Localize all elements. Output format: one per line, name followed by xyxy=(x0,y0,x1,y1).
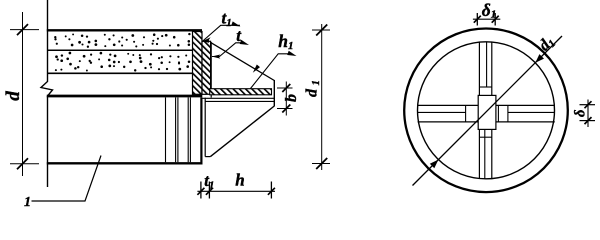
delta1 dim line xyxy=(473,18,500,20)
tick top d xyxy=(17,24,28,35)
horizontal plate right arm bottom line xyxy=(496,121,555,123)
svg-text:δ: δ xyxy=(573,110,589,117)
svg-text:1: 1 xyxy=(24,195,31,210)
vertical plate top arm mid line xyxy=(486,42,488,87)
diagonal d1 line xyxy=(413,36,563,186)
pile left edge with break line xyxy=(41,0,53,187)
outer circle xyxy=(404,29,568,193)
dimension d1 ext top xyxy=(312,29,330,31)
right arm rung 2 xyxy=(507,105,509,122)
bottom dim bar 3 xyxy=(270,182,272,199)
right arm rung 1 xyxy=(497,105,499,122)
plate 2 hatched xyxy=(202,41,211,94)
left arm rung xyxy=(465,105,467,122)
top arm rung xyxy=(479,86,491,88)
tick b bottom xyxy=(282,105,290,113)
delta right dim bar top xyxy=(580,104,596,106)
svg-text:h: h xyxy=(235,171,244,190)
arrowhead t label end xyxy=(240,40,249,45)
line under band 1 xyxy=(203,97,275,99)
bottom dim bar 1 xyxy=(200,182,202,199)
vertical plate top arm right line xyxy=(491,43,493,96)
dimension d extension line top xyxy=(10,29,39,31)
diagonal arrowhead lower xyxy=(430,160,439,169)
pile mid thick line xyxy=(47,95,203,98)
tick delta1 right xyxy=(492,16,499,23)
vertical plate bottom arm right line xyxy=(491,129,493,178)
tick delta bottom xyxy=(585,117,592,124)
arrowhead t at plate xyxy=(212,55,221,59)
svg-text:d: d xyxy=(3,91,24,101)
pile bottom edge xyxy=(47,162,203,164)
dimension d1 line xyxy=(321,24,323,170)
arrowhead t1 at plate xyxy=(202,37,210,43)
horizontal plate left arm bottom line xyxy=(418,121,479,123)
dimension d extension line bottom xyxy=(10,163,39,165)
dimension d1 ext bottom xyxy=(312,163,330,165)
line between stipple rows xyxy=(48,49,193,51)
tick bottom 3 xyxy=(268,188,275,195)
vertical plate bottom arm left line xyxy=(478,129,480,178)
bottom dim bar 2 xyxy=(208,182,210,199)
cone tip right face xyxy=(273,80,275,106)
diagonal arrowhead upper xyxy=(535,54,544,63)
dimension b extension bottom xyxy=(277,108,293,110)
dimension b line xyxy=(285,82,287,116)
inner circle xyxy=(418,42,555,179)
line under band 2 xyxy=(205,100,274,102)
stipple row 2 bottom line xyxy=(48,72,193,74)
vertical band lines at pile end xyxy=(165,98,167,163)
bottom arm rung xyxy=(479,136,491,138)
pile top edge xyxy=(47,29,202,31)
delta right dim line xyxy=(587,100,589,128)
cone left face xyxy=(204,98,206,157)
bottom dimension line t1 h xyxy=(197,190,275,192)
arrowhead t1 label end xyxy=(231,21,240,26)
delta right dim bar bottom xyxy=(580,120,596,122)
horizontal plate left arm mid line xyxy=(418,111,466,113)
tick delta top xyxy=(585,101,592,108)
dimension d line xyxy=(22,12,24,176)
delta1 dim bar right xyxy=(494,13,496,26)
cone lower slant edge xyxy=(210,106,274,157)
arrowhead h1 label end xyxy=(287,51,296,56)
tick delta1 left xyxy=(474,16,481,23)
center box xyxy=(478,95,496,129)
dimension b extension top xyxy=(277,87,293,89)
tick bottom 2 xyxy=(206,188,213,195)
tick d1 top xyxy=(316,25,327,36)
vertical plate top arm left line xyxy=(478,43,480,96)
horizontal plate right arm top line xyxy=(496,104,555,106)
tick b top xyxy=(282,84,290,92)
end plate 1 hatched xyxy=(193,32,203,95)
stipple dots row 1 xyxy=(54,33,190,48)
svg-text:b: b xyxy=(283,94,300,102)
horizontal plate left arm top line xyxy=(418,104,479,106)
plate 2 right edge line xyxy=(210,42,212,98)
horizontal plate right arm mid line xyxy=(508,111,555,113)
cone foot bottom xyxy=(205,156,210,158)
leader line for label 1 xyxy=(32,156,102,202)
vertical plate bottom arm mid line xyxy=(484,129,486,178)
leader t xyxy=(212,43,245,57)
arrowhead h1 on slant xyxy=(253,65,260,73)
cone upper slant edge xyxy=(211,43,274,81)
delta1 dim bar left xyxy=(476,13,478,26)
tick d1 bottom xyxy=(316,158,327,169)
pile right edge thick xyxy=(200,98,202,164)
tick bottom d xyxy=(17,158,28,169)
horizontal plate hatched band xyxy=(210,89,272,95)
leader t1 top xyxy=(202,25,240,41)
tick bottom 1 xyxy=(197,188,204,195)
stipple dots row 2 xyxy=(55,52,190,72)
leader h1 xyxy=(250,54,291,89)
